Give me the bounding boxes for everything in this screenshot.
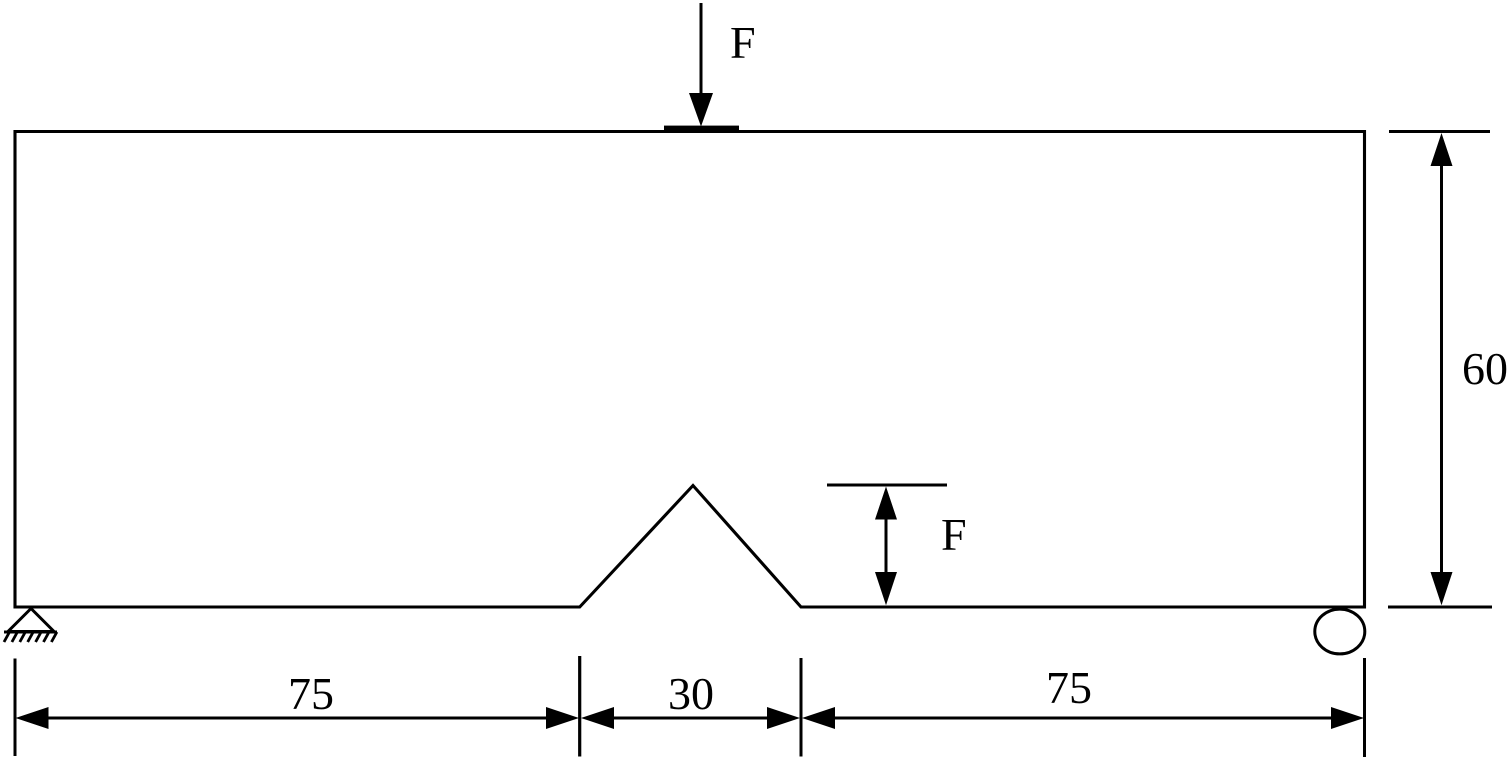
dimension 75 (right) double arrow [831,717,1335,720]
extension line notch-left (x=580) [578,656,581,757]
svg-text:75: 75 [288,668,334,719]
pinned support base line [4,631,57,634]
svg-text:60: 60 [1462,343,1508,394]
roller support circle [1315,609,1365,654]
beam outline with V-notch [15,132,1365,608]
svg-text:75: 75 [1046,662,1092,713]
pinned support hatching [4,632,57,642]
svg-text:30: 30 [668,668,714,719]
notch depth dimension: horizontal reference line [827,484,947,487]
notch depth dimension: vertical double arrow [885,505,888,585]
extension line left (x=14.5) [14,659,17,757]
load pad [664,126,739,131]
extension line right (x=1364.5) [1363,658,1366,757]
extension line notch-right (x=801) [800,658,803,757]
dimension 60: vertical double arrow [1440,155,1443,582]
force arrow F (top) [700,3,703,96]
dimension 60: bottom extension line [1388,605,1492,608]
pinned support triangle [8,609,54,632]
dimension 30 double arrow [610,717,771,720]
dimension 60: top extension line [1389,130,1490,133]
svg-text:F: F [730,17,756,68]
svg-text:F: F [941,509,967,560]
dimension 75 (left) double arrow [44,717,550,720]
